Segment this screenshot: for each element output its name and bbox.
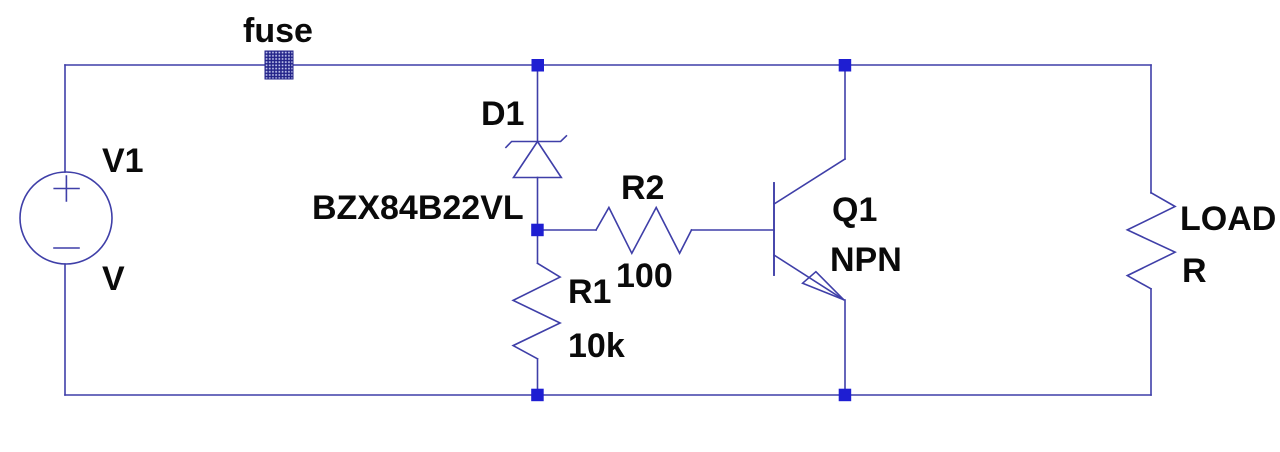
- transistor Q1 collector diagonal: [774, 159, 845, 204]
- node junction D1/R1/R2: [531, 224, 544, 237]
- svg-text:NPN: NPN: [830, 241, 902, 279]
- transistor Q1 emitter diagonal: [774, 255, 844, 300]
- wire D1 to node: [537, 178, 539, 231]
- wire Q1 collector to top node: [844, 65, 846, 159]
- wire node to R1: [537, 230, 539, 263]
- transistor Q1 emitter arrowhead: [803, 272, 844, 300]
- wire R1 to bottom node: [537, 359, 539, 395]
- V1 minus sign: [54, 247, 79, 249]
- wire node to R2: [538, 229, 597, 231]
- fuse element: [265, 51, 293, 79]
- svg-text:R: R: [1182, 252, 1207, 290]
- svg-text:Q1: Q1: [832, 191, 877, 229]
- svg-text:R1: R1: [568, 273, 611, 311]
- wire left vertical lower: [64, 264, 66, 395]
- svg-text:100: 100: [616, 257, 673, 295]
- node junction top D1: [532, 59, 545, 72]
- wire right vertical upper: [1150, 65, 1152, 193]
- svg-text:10k: 10k: [568, 327, 625, 365]
- resistor LOAD zigzag: [1127, 193, 1175, 289]
- svg-text:V1: V1: [102, 142, 144, 180]
- svg-text:R2: R2: [621, 169, 664, 207]
- svg-text:fuse: fuse: [243, 12, 313, 50]
- svg-text:D1: D1: [481, 95, 524, 133]
- wire Q1 emitter to bottom node: [844, 300, 846, 395]
- wire bottom horizontal: [65, 394, 1151, 396]
- V1 plus sign: [54, 176, 79, 201]
- svg-text:BZX84B22VL: BZX84B22VL: [312, 189, 524, 227]
- wire D1 branch top: [537, 65, 539, 141]
- wire top horizontal: [65, 64, 1151, 66]
- node junction bottom Q1: [839, 389, 852, 402]
- node junction top Q1: [839, 59, 852, 72]
- wire R2 to Q1 base: [692, 229, 775, 231]
- svg-text:LOAD: LOAD: [1180, 200, 1276, 238]
- resistor R1 zigzag: [513, 263, 560, 359]
- zener diode D1 triangle: [514, 142, 562, 178]
- wire left vertical upper: [64, 65, 66, 172]
- wire right vertical lower: [1150, 289, 1152, 395]
- zener diode D1 cathode bar: [506, 136, 567, 148]
- transistor Q1 base bar: [773, 183, 775, 275]
- voltage source V1 circle: [20, 172, 112, 264]
- resistor R2 zigzag: [596, 208, 692, 254]
- node junction bottom R1: [531, 389, 544, 402]
- svg-text:V: V: [102, 260, 125, 298]
